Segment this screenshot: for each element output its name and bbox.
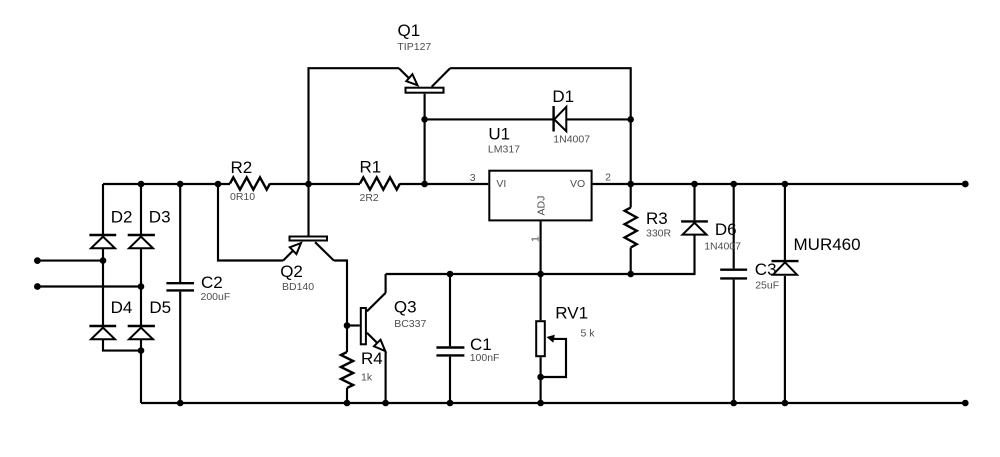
node R2 right riser [305, 181, 312, 188]
wire RV1 wiper tail [541, 339, 566, 377]
transistor Q2 [280, 237, 334, 294]
svg-text:D2: D2 [111, 208, 133, 227]
svg-text:200uF: 200uF [201, 291, 231, 303]
svg-text:0R10: 0R10 [230, 191, 255, 203]
diode D6 [681, 220, 741, 252]
node MUR460 top [782, 181, 789, 188]
svg-text:1N4007: 1N4007 [704, 240, 741, 252]
diode MUR460 [772, 235, 861, 275]
wire top rail left segment [103, 183, 230, 185]
diode D5 [128, 298, 171, 339]
wire Q2 base drop from rail [307, 184, 309, 236]
capacitor C2 [166, 273, 230, 303]
terminal output plus [962, 181, 969, 188]
resistor R1 [360, 158, 401, 204]
node R3 bottom [627, 271, 634, 278]
node Q2 emitter tap [215, 181, 222, 188]
wire Q2 emitter feed from rail [218, 184, 283, 261]
node VO rail [627, 181, 634, 188]
diode D2 [89, 208, 132, 249]
wire Q3 collector riser [385, 274, 387, 293]
diode D3 [128, 208, 171, 249]
node D1 cathode junction [421, 116, 428, 123]
svg-text:330R: 330R [646, 228, 672, 240]
wire bridge left column [103, 184, 141, 351]
wire MUR460 top lead [784, 184, 786, 260]
svg-text:LM317: LM317 [488, 143, 520, 155]
svg-text:U1: U1 [488, 125, 510, 144]
svg-text:D6: D6 [715, 220, 737, 239]
wire C3 bottom lead [733, 280, 735, 403]
svg-text:1N4007: 1N4007 [553, 134, 590, 146]
wire R4 bottom lead [346, 388, 348, 403]
svg-text:3: 3 [470, 172, 476, 184]
node bridge left input [100, 257, 107, 264]
node bridge right input [138, 283, 145, 290]
wire rail R1 to VI pin [400, 183, 488, 185]
wire R3 bottom lead [630, 248, 632, 275]
wire MUR460 bottom lead [784, 276, 786, 403]
resistor R2 [230, 158, 270, 203]
wire input line 2 [37, 285, 141, 287]
svg-text:TIP127: TIP127 [397, 41, 431, 53]
svg-text:1: 1 [529, 236, 541, 242]
svg-text:BD140: BD140 [282, 281, 314, 293]
svg-text:R4: R4 [361, 349, 383, 368]
svg-text:VO: VO [570, 178, 585, 190]
node C2 top [177, 181, 184, 188]
svg-text:2: 2 [605, 171, 611, 183]
svg-text:D4: D4 [111, 298, 133, 317]
node D1 anode junction [627, 116, 634, 123]
wire D1 anode lead [566, 118, 630, 120]
svg-text:D1: D1 [552, 87, 574, 106]
wire D1 cathode lead [425, 118, 554, 120]
wire top rail between R2 and R1 [270, 183, 360, 185]
wire C1 bottom lead [449, 357, 451, 403]
wire C1 top lead [449, 274, 451, 346]
wire RV1 bottom lead [540, 357, 542, 403]
svg-text:25uF: 25uF [755, 280, 779, 292]
node MUR460 bottom [782, 400, 789, 407]
terminal input 1 [34, 257, 41, 264]
node ADJ junction [537, 271, 544, 278]
diode D4 [89, 298, 132, 339]
svg-text:Q1: Q1 [398, 21, 421, 40]
capacitor C1 [436, 335, 499, 364]
node C2 bottom [177, 400, 184, 407]
node bridge top rail [138, 181, 145, 188]
svg-text:D3: D3 [149, 208, 171, 227]
svg-text:MUR460: MUR460 [794, 235, 861, 254]
svg-text:BC337: BC337 [394, 318, 426, 330]
node RV1 bottom [537, 400, 544, 407]
wire bridge right column [140, 184, 142, 403]
node C1 top [447, 271, 454, 278]
wire bottom rail [141, 402, 965, 404]
svg-text:D5: D5 [149, 298, 171, 317]
node Q1 base rail [421, 181, 428, 188]
svg-text:Q2: Q2 [280, 262, 303, 281]
diode D1 [552, 87, 590, 146]
node C3 top [730, 181, 737, 188]
wire ADJ net horizontal [386, 235, 695, 274]
terminal output minus [962, 400, 969, 407]
wire R3 top lead [630, 184, 632, 208]
node C1 bottom [447, 400, 454, 407]
wire Q1 base to rail [424, 94, 426, 184]
svg-text:RV1: RV1 [555, 304, 588, 323]
wire D6 top lead [693, 184, 695, 220]
wire C2 lower lead [179, 292, 181, 403]
node R4 bottom [344, 400, 351, 407]
wire top loop right down to VO node [450, 68, 631, 184]
svg-text:2R2: 2R2 [360, 192, 379, 204]
wire Q2 collector to R4 column [334, 261, 347, 353]
op-amp U1 regulator LM317 [470, 125, 611, 243]
wire C3 top lead [733, 184, 735, 268]
svg-text:100nF: 100nF [470, 352, 500, 364]
capacitor C3 [720, 260, 779, 292]
transistor Q1 [397, 21, 450, 93]
node Q3 emitter bottom [382, 400, 389, 407]
wire input line 1 [37, 260, 103, 262]
svg-text:R3: R3 [646, 209, 668, 228]
wire ADJ pin to RV1 [540, 221, 542, 320]
potentiometer RV1 [536, 304, 595, 357]
wire Q3 base [347, 324, 360, 326]
resistor R3 [625, 208, 672, 248]
node RV1 wiper bottom [537, 374, 544, 381]
node bridge bottom [138, 347, 145, 354]
svg-text:R2: R2 [231, 158, 253, 177]
svg-text:ADJ: ADJ [536, 196, 548, 216]
svg-text:Q3: Q3 [394, 298, 417, 317]
terminal input 2 [34, 283, 41, 290]
resistor R4 [341, 349, 383, 388]
node Q3 base junction [344, 322, 351, 329]
node D6 top [691, 181, 698, 188]
svg-text:VI: VI [496, 178, 506, 190]
wire Q3 emitter drop [385, 351, 387, 403]
svg-text:C3: C3 [755, 260, 777, 279]
svg-text:C2: C2 [201, 273, 223, 292]
transistor Q3 [361, 293, 427, 351]
node C3 bottom [730, 400, 737, 407]
wire rail VO pin to output terminal [593, 183, 966, 185]
svg-text:5 k: 5 k [581, 327, 596, 339]
wire riser rail to top loop [309, 68, 399, 184]
wire C2 upper lead [179, 184, 181, 282]
svg-text:1k: 1k [361, 371, 373, 383]
svg-text:R1: R1 [360, 158, 382, 177]
